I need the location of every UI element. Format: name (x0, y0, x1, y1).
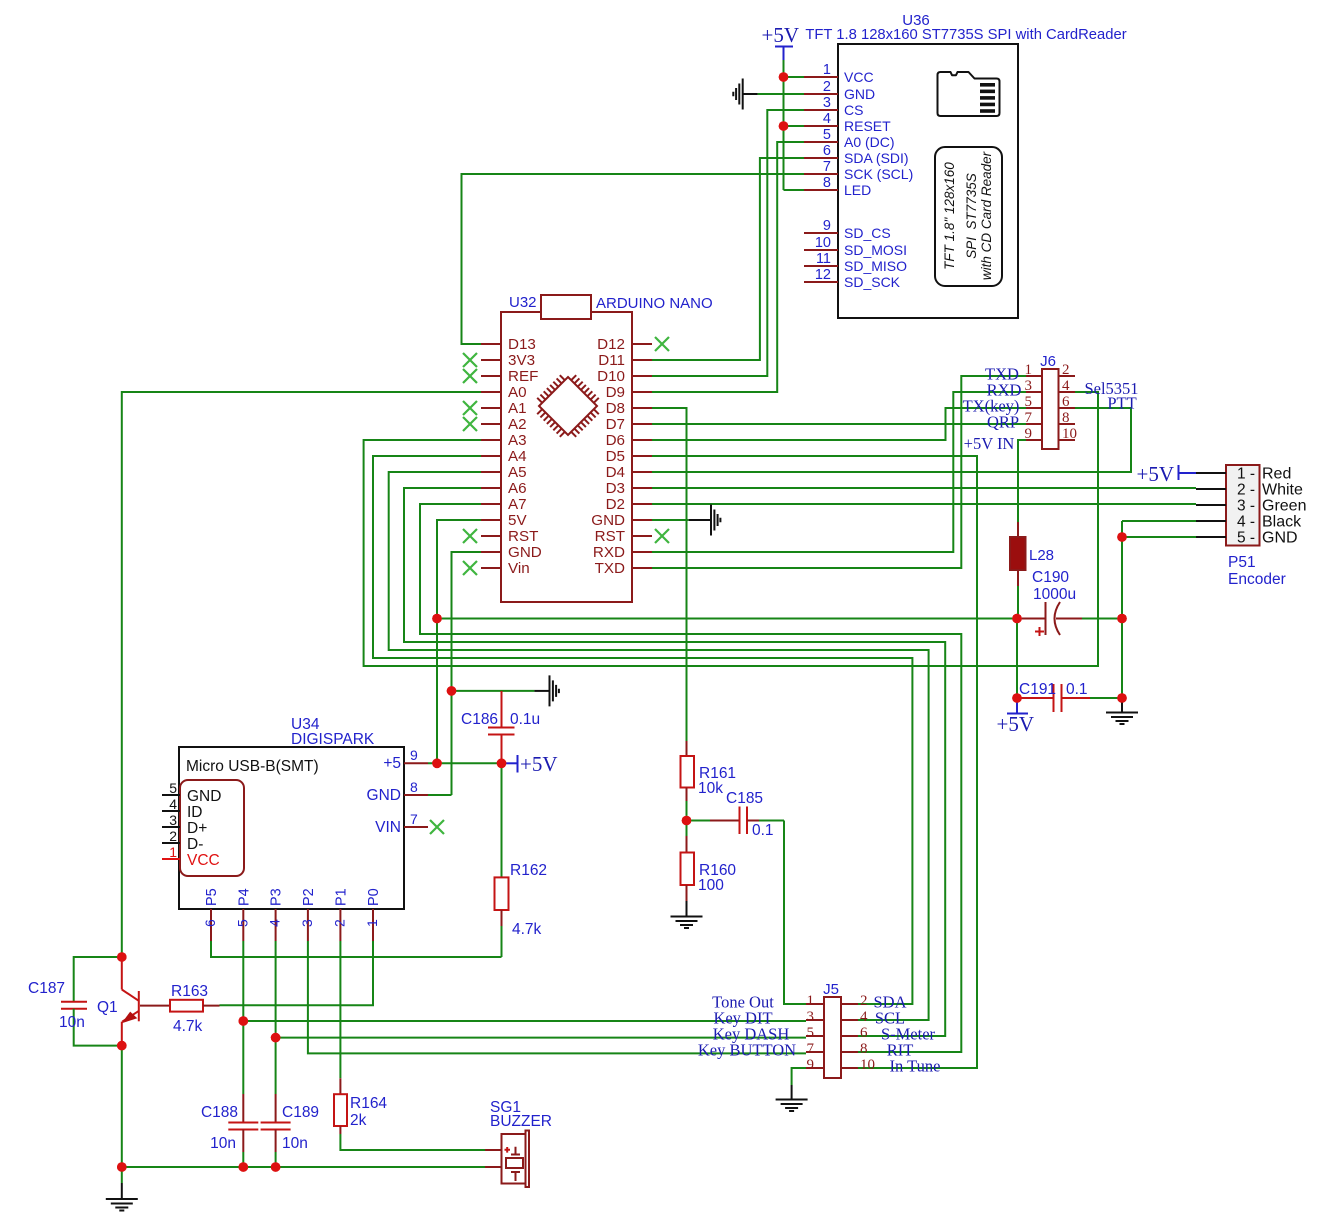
earth ground right of C191 (1106, 698, 1138, 724)
capacitor C185 (687, 807, 785, 835)
+5V port at encoder pin1 (1136, 462, 1196, 486)
svg-text:P5: P5 (204, 888, 220, 906)
svg-text:7: 7 (1025, 410, 1033, 426)
U36 pins 9-12 SD (804, 218, 907, 290)
wire P4 / Key DIT to J5 (243, 941, 806, 1094)
svg-text:+5V: +5V (520, 752, 558, 776)
svg-text:D8: D8 (606, 400, 625, 417)
svg-text:0.1: 0.1 (752, 822, 774, 839)
svg-text:RESET: RESET (844, 118, 891, 134)
svg-text:In Tune: In Tune (890, 1057, 941, 1076)
U32 left pins (481, 336, 542, 577)
resistor R162 (495, 763, 509, 957)
junction C191 left (1012, 693, 1022, 703)
svg-text:A0 (DC): A0 (DC) (844, 134, 895, 150)
svg-text:1: 1 (364, 919, 380, 927)
svg-text:6: 6 (823, 143, 831, 159)
svg-text:A5: A5 (508, 464, 527, 481)
svg-text:9: 9 (807, 1057, 815, 1073)
junction rail C188 (239, 1162, 249, 1172)
resistor R163 (170, 1000, 220, 1012)
svg-text:SPI ST7735S: SPI ST7735S (964, 173, 979, 259)
inductor L28 (1010, 522, 1026, 619)
svg-text:4: 4 (860, 1009, 868, 1025)
svg-text:RST: RST (508, 528, 538, 545)
wire A3 to J6 Sel5351 (364, 392, 1098, 666)
wire RXD to J6 RXD (652, 392, 1026, 552)
svg-text:3 -: 3 - (1237, 498, 1255, 515)
svg-text:R162: R162 (510, 862, 547, 879)
svg-text:1: 1 (169, 844, 177, 860)
svg-text:U32: U32 (509, 294, 537, 311)
svg-text:SD_MOSI: SD_MOSI (844, 242, 907, 258)
svg-text:A4: A4 (508, 448, 527, 465)
svg-text:D2: D2 (606, 496, 625, 513)
junction C191 right (1117, 693, 1127, 703)
wire D10 to TFT CS riser (652, 375, 767, 377)
svg-text:+5V: +5V (1136, 462, 1174, 486)
buzzer SG1 (485, 1131, 529, 1188)
capacitor C190 (polarized) (1017, 602, 1122, 636)
svg-text:GND: GND (844, 86, 875, 102)
wire VCC pin1 (784, 76, 805, 78)
svg-text:5: 5 (234, 919, 250, 927)
svg-text:8: 8 (1062, 410, 1070, 426)
svg-text:100: 100 (698, 877, 724, 894)
wire D7 to J6 QRP (652, 423, 1026, 425)
svg-text:A7: A7 (508, 496, 527, 513)
svg-text:Red: Red (1262, 466, 1291, 483)
svg-text:DIGISPARK: DIGISPARK (291, 731, 375, 748)
wire +5V vertical to VCC/RESET/LED (783, 60, 785, 190)
svg-text:4 -: 4 - (1237, 514, 1255, 531)
svg-text:LED: LED (844, 182, 871, 198)
svg-text:+5V IN: +5V IN (964, 434, 1015, 453)
svg-text:D9: D9 (606, 384, 625, 401)
svg-text:10n: 10n (282, 1135, 308, 1152)
svg-text:SD_SCK: SD_SCK (844, 274, 901, 290)
svg-text:3: 3 (823, 95, 831, 111)
svg-text:2: 2 (169, 828, 177, 844)
junction R161/R160/C185 (682, 816, 692, 826)
svg-text:D10: D10 (597, 368, 625, 385)
wire D6 to J6 TX(key) (652, 408, 1026, 440)
svg-text:VIN: VIN (375, 819, 401, 836)
svg-text:5 -: 5 - (1237, 530, 1255, 547)
svg-text:10n: 10n (210, 1135, 236, 1152)
capacitor C191 (1017, 684, 1122, 712)
wire encoder GND to ground rail (1122, 536, 1196, 538)
wire RESET pin4 (784, 125, 805, 127)
wire D2 to encoder Green (652, 503, 1196, 505)
svg-text:R164: R164 (350, 1095, 387, 1112)
capacitor C188 (228, 1094, 258, 1167)
wire GND (left pin) down to C186 gnd row and Digispark GND (428, 552, 534, 795)
wire J5 pin9 to ground (792, 1068, 806, 1085)
transistor Q1 (122, 957, 170, 1046)
svg-text:RXD: RXD (593, 544, 625, 561)
svg-text:3: 3 (169, 812, 177, 828)
USB pins 5,4,3,2 (GND,ID,D+,D-) (162, 780, 221, 853)
svg-text:P4: P4 (236, 888, 252, 906)
svg-text:C188: C188 (201, 1104, 238, 1121)
svg-text:4.7k: 4.7k (173, 1018, 203, 1035)
svg-text:REF: REF (508, 368, 538, 385)
svg-text:SD_CS: SD_CS (844, 225, 891, 241)
junction +5 at C186 (497, 759, 507, 769)
svg-text:CS: CS (844, 102, 863, 118)
svg-text:J6: J6 (1040, 353, 1056, 370)
wire D4 to J6 PTT (652, 408, 1131, 472)
svg-text:GND: GND (591, 512, 625, 529)
svg-text:C187: C187 (28, 980, 65, 997)
wire P0 to R163 (220, 941, 374, 1005)
svg-text:Micro USB-B(SMT): Micro USB-B(SMT) (186, 758, 319, 775)
svg-text:1: 1 (823, 62, 831, 78)
svg-text:8: 8 (860, 1041, 868, 1057)
junction C190 right (1117, 614, 1127, 624)
svg-text:7: 7 (807, 1041, 815, 1057)
svg-text:D3: D3 (606, 480, 625, 497)
U34 right pins +5, GND, VIN (367, 747, 428, 836)
svg-text:with CD Card Reader: with CD Card Reader (979, 151, 994, 280)
capacitor C186 (488, 691, 515, 763)
wire TFT SDA to D11 (652, 158, 804, 360)
no-connect X at VIN (430, 820, 444, 834)
wire D8 down to R161 (652, 408, 687, 741)
wire P2 / Key BUTTON to J5 (308, 941, 806, 1053)
wire D5 to J5 In Tune (652, 456, 977, 1068)
sideways ground at C186 row (534, 675, 559, 706)
svg-text:VCC: VCC (187, 852, 220, 869)
svg-text:ARDUINO NANO: ARDUINO NANO (596, 295, 713, 312)
wire J6 pin9 +5V IN down to L28 (1018, 440, 1026, 522)
svg-text:D5: D5 (606, 448, 625, 465)
svg-text:4: 4 (169, 796, 177, 812)
svg-text:10k: 10k (698, 780, 723, 797)
+5V power port (top, at TFT VCC) (761, 23, 799, 77)
wire encoder ground rail vertical (1121, 521, 1123, 698)
U34 bottom pins P5-P0 (202, 888, 382, 941)
svg-text:P1: P1 (333, 888, 349, 906)
svg-text:9: 9 (410, 747, 418, 763)
svg-text:D12: D12 (597, 336, 625, 353)
wire D9 to TFT A0 riser (652, 391, 777, 393)
svg-text:6: 6 (860, 1025, 868, 1041)
svg-text:4: 4 (823, 111, 831, 127)
svg-text:3V3: 3V3 (508, 352, 535, 369)
svg-text:GND: GND (367, 787, 401, 804)
resistor R164 (334, 1078, 485, 1150)
svg-text:A6: A6 (508, 480, 527, 497)
wire LED pin8 (784, 189, 805, 191)
svg-text:8: 8 (823, 175, 831, 191)
svg-text:+5: +5 (383, 755, 401, 772)
svg-text:7: 7 (823, 159, 831, 175)
svg-text:P2: P2 (301, 888, 317, 906)
ground at Arduino GND right pin (652, 505, 720, 536)
connector J5 (806, 993, 875, 1078)
svg-text:12: 12 (815, 267, 831, 283)
svg-text:9: 9 (823, 218, 831, 234)
svg-text:D11: D11 (598, 352, 625, 369)
wire +5 pin to C186 node and +5V port (428, 762, 518, 764)
svg-text:D13: D13 (508, 336, 536, 353)
svg-text:PTT: PTT (1107, 394, 1136, 413)
U32 right pins (591, 336, 652, 577)
svg-text:SCK (SCL): SCK (SCL) (844, 166, 913, 182)
SD card icon (938, 72, 1000, 116)
svg-text:4: 4 (1062, 378, 1070, 394)
svg-text:3: 3 (807, 1009, 815, 1025)
svg-text:1: 1 (1025, 362, 1033, 378)
svg-text:2k: 2k (350, 1112, 367, 1129)
MCU chip icon (diamond) (537, 375, 599, 437)
svg-text:0.1: 0.1 (1066, 681, 1088, 698)
svg-text:5: 5 (807, 1025, 815, 1041)
resistor R160 (681, 821, 695, 902)
svg-text:GND: GND (187, 788, 221, 805)
svg-text:11: 11 (816, 251, 831, 267)
svg-text:C190: C190 (1032, 569, 1069, 586)
wire A0 to Q1 collector node (122, 392, 481, 957)
capacitor C189 (261, 1094, 291, 1167)
wire encoder Black to ground rail (1122, 520, 1196, 522)
Digispark U34 body (179, 747, 404, 909)
USB connector inner box (180, 780, 244, 876)
svg-text:C189: C189 (282, 1104, 319, 1121)
earth ground bottom left (106, 1167, 138, 1211)
svg-text:Key BUTTON: Key BUTTON (698, 1041, 796, 1060)
svg-text:SD_MISO: SD_MISO (844, 258, 907, 274)
ground at TFT GND pin2 (733, 79, 804, 110)
junction 5V/C190 row (432, 614, 442, 624)
svg-text:A1: A1 (508, 400, 527, 417)
svg-text:2: 2 (1062, 362, 1070, 378)
svg-text:Black: Black (1262, 514, 1302, 531)
svg-text:P0: P0 (366, 888, 382, 906)
svg-text:ID: ID (187, 804, 203, 821)
junction GND row (447, 686, 457, 696)
wire A5 to J5 SCL (389, 472, 929, 1020)
svg-text:P51: P51 (1228, 554, 1256, 571)
no-connect X marks right (D12,RST) (655, 337, 669, 543)
svg-text:VCC: VCC (844, 69, 874, 85)
svg-text:10: 10 (1062, 426, 1077, 442)
svg-text:1 -: 1 - (1237, 466, 1255, 483)
wire C190 row to C191 row (left) (1016, 619, 1018, 699)
svg-text:2: 2 (860, 993, 868, 1009)
wire emitter to ground rail (121, 1046, 123, 1167)
svg-text:Green: Green (1262, 498, 1306, 515)
svg-text:SDA (SDI): SDA (SDI) (844, 150, 909, 166)
svg-text:D6: D6 (606, 432, 625, 449)
connector J6 (1025, 362, 1078, 449)
wire TFT SCK to D13 (462, 174, 805, 344)
svg-text:C186: C186 (461, 711, 498, 728)
wire TFT A0(DC) to D9 (652, 142, 804, 392)
svg-text:J5: J5 (823, 981, 839, 998)
junction Key DASH (271, 1033, 281, 1043)
svg-text:D7: D7 (606, 416, 625, 433)
svg-text:8: 8 (410, 779, 418, 795)
svg-text:D-: D- (187, 836, 203, 853)
svg-text:A3: A3 (508, 432, 527, 449)
wire C185 to J5 Tone Out (784, 821, 806, 1005)
wire D11 to TFT SDA riser (652, 359, 760, 361)
svg-text:3: 3 (1025, 378, 1033, 394)
wire TXD to J6 TXD (652, 376, 1026, 568)
wire TFT CS to D10 (652, 110, 804, 376)
wire A6 to J5 S-Meter (404, 488, 945, 1036)
wire P1 down to R164 (339, 941, 341, 1078)
svg-text:C191: C191 (1019, 681, 1056, 698)
resistor R161 (681, 741, 695, 821)
svg-text:10: 10 (815, 235, 831, 251)
svg-text:QRP: QRP (987, 413, 1019, 432)
earth ground below J5 (776, 1085, 808, 1111)
svg-text:+5V: +5V (996, 712, 1034, 736)
+5V port at Digispark (518, 752, 558, 776)
svg-text:TXD: TXD (595, 560, 625, 577)
Arduino Nano U32 body (501, 295, 632, 602)
svg-text:A0: A0 (508, 384, 527, 401)
svg-text:A2: A2 (508, 416, 527, 433)
svg-text:TFT 1.8" 128x160: TFT 1.8" 128x160 (942, 162, 957, 270)
junction Key DIT (239, 1016, 249, 1026)
svg-text:4: 4 (267, 919, 283, 927)
svg-text:R163: R163 (171, 983, 208, 1000)
junction C190 left (1012, 614, 1022, 624)
svg-text:TFT 1.8 128x160 ST7735S SPI wi: TFT 1.8 128x160 ST7735S SPI with CardRea… (805, 27, 1126, 43)
wire D3 to encoder White (652, 487, 1196, 489)
earth ground below R160 (671, 901, 703, 928)
svg-text:6: 6 (1062, 394, 1070, 410)
svg-text:4.7k: 4.7k (512, 921, 542, 938)
TFT module U36 outline (838, 44, 1018, 318)
svg-text:5: 5 (823, 127, 831, 143)
USB pin 1 VCC (red) (162, 844, 220, 869)
svg-text:3: 3 (299, 919, 315, 927)
svg-text:D+: D+ (187, 820, 207, 837)
svg-text:L28: L28 (1029, 547, 1054, 564)
svg-text:2: 2 (331, 919, 347, 927)
svg-text:5: 5 (169, 780, 177, 796)
svg-text:RST: RST (595, 528, 625, 545)
junction at VCC (779, 72, 789, 82)
svg-text:P3: P3 (269, 888, 285, 906)
encoder P51 connector (1196, 465, 1306, 547)
junction +5 at 5V riser (432, 759, 442, 769)
svg-text:10n: 10n (59, 1014, 85, 1031)
junction at RESET (779, 121, 789, 131)
capacitor C187 (61, 957, 122, 1046)
svg-text:Q1: Q1 (97, 999, 118, 1016)
svg-text:2 -: 2 - (1237, 482, 1255, 499)
wire A7 to J5 RIT (420, 504, 961, 1052)
svg-text:Vin: Vin (508, 560, 530, 577)
junction Q1 emitter (117, 1041, 127, 1051)
svg-text:0.1u: 0.1u (510, 711, 540, 728)
svg-text:BUZZER: BUZZER (490, 1113, 552, 1130)
ground rail bottom (122, 1166, 485, 1168)
svg-text:C185: C185 (726, 790, 763, 807)
svg-text:White: White (1262, 482, 1303, 499)
junction rail left (117, 1162, 127, 1172)
wire P5 to R162 bottom (211, 941, 502, 957)
svg-text:1000u: 1000u (1033, 586, 1076, 603)
wire A4 to J5 SDA (373, 456, 912, 1004)
wire 5V rail to C190 (437, 520, 1017, 763)
svg-text:6: 6 (202, 919, 218, 927)
svg-text:7: 7 (410, 811, 418, 827)
U36 pins 1-8 (804, 62, 913, 198)
svg-text:GND: GND (1262, 530, 1298, 547)
svg-text:D4: D4 (606, 464, 625, 481)
svg-text:5: 5 (1025, 394, 1033, 410)
junction rail C189 (271, 1162, 281, 1172)
junction encoder GND (1117, 532, 1127, 542)
svg-text:1: 1 (807, 993, 815, 1009)
+5V port below C191 (996, 698, 1034, 736)
wire P3 / Key DASH to J5 (276, 941, 806, 1094)
junction A0/Q1 collector (117, 952, 127, 962)
svg-text:5V: 5V (508, 512, 527, 529)
svg-text:+5V: +5V (761, 23, 799, 47)
svg-text:GND: GND (508, 544, 542, 561)
svg-text:Encoder: Encoder (1228, 571, 1286, 588)
no-connect X marks left (3V3,REF,A1,A2,RST,Vin) (463, 353, 477, 575)
svg-text:2: 2 (823, 79, 831, 95)
svg-text:10: 10 (860, 1057, 875, 1073)
TFT descriptive label box with rotated text (935, 147, 1002, 286)
